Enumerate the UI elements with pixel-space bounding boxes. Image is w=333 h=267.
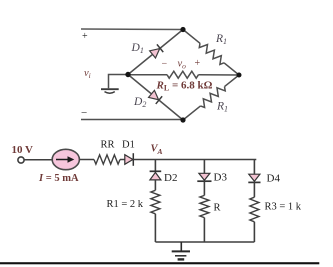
wire branch D3 upper: [203, 160, 205, 174]
node bottom: [180, 117, 185, 122]
node top: [180, 27, 185, 32]
diode D4: [249, 174, 260, 181]
wire R to bottom rail: [203, 218, 205, 242]
svg-text:RL = 6.8 kΩ: RL = 6.8 kΩ: [156, 80, 213, 93]
svg-text:D1: D1: [131, 42, 144, 55]
svg-text:+: +: [195, 58, 201, 69]
svg-text:R3 = 1 k: R3 = 1 k: [265, 202, 302, 213]
wire D4 to R3: [253, 182, 255, 197]
svg-text:D2: D2: [164, 172, 177, 184]
wire ground tap: [109, 75, 129, 89]
svg-text:VA: VA: [151, 144, 163, 157]
wire branch D4 upper: [253, 160, 255, 174]
wire top rail VA: [134, 159, 257, 161]
svg-text:−: −: [162, 59, 168, 70]
svg-text:D4: D4: [267, 173, 281, 185]
node right: [237, 73, 242, 78]
diode D3: [199, 173, 210, 180]
diode D2 branch: [150, 170, 162, 172]
wire source to RR: [79, 159, 94, 161]
wire D2 diagonal: [128, 75, 183, 121]
wire branch D2 upper: [154, 160, 156, 172]
wire terminal to source: [24, 159, 52, 161]
svg-text:10 V: 10 V: [12, 144, 34, 156]
resistor R1 bottom right arm: [183, 75, 239, 120]
resistor R1 = 2k: [151, 190, 160, 214]
svg-text:R: R: [214, 203, 221, 214]
wire D1 diagonal: [128, 30, 183, 75]
svg-text:R1 = 2 k: R1 = 2 k: [107, 199, 144, 210]
wire top rail vi+ to top node: [81, 28, 183, 31]
diode D1 series: [125, 155, 133, 165]
svg-text:D3: D3: [214, 172, 228, 184]
svg-text:vi: vi: [84, 68, 91, 80]
wire bottom rail vi- to bottom node: [81, 119, 183, 121]
current source I: [52, 149, 79, 169]
svg-text:vo: vo: [178, 59, 187, 71]
resistor R3: [250, 197, 259, 222]
resistor RR: [94, 155, 120, 164]
resistor R1 top right arm: [183, 30, 239, 76]
svg-text:+: +: [82, 31, 88, 42]
svg-text:D2: D2: [133, 96, 146, 109]
ground bottom circuit: [172, 242, 190, 259]
diode D2 bridge: [148, 90, 162, 104]
svg-text:R1: R1: [216, 101, 228, 114]
svg-text:D1: D1: [122, 140, 135, 151]
wire RR to D1: [120, 159, 125, 161]
svg-text:−: −: [81, 107, 87, 119]
svg-text:I = 5 mA: I = 5 mA: [38, 173, 79, 184]
wire R3 to bottom rail: [253, 222, 255, 242]
wire D3 to R: [203, 181, 205, 195]
wire D2 to R1: [154, 180, 156, 190]
ground top circuit: [101, 89, 119, 93]
diode D1 bridge: [149, 44, 163, 58]
svg-text:R1: R1: [215, 33, 227, 46]
resistor RL load: [128, 71, 239, 78]
node left: [125, 72, 130, 77]
resistor R: [200, 195, 209, 217]
svg-text:RR: RR: [101, 140, 115, 151]
wire bottom rail: [155, 241, 254, 243]
terminal 10V: [18, 157, 24, 163]
wire R1 to bottom rail: [154, 214, 156, 242]
